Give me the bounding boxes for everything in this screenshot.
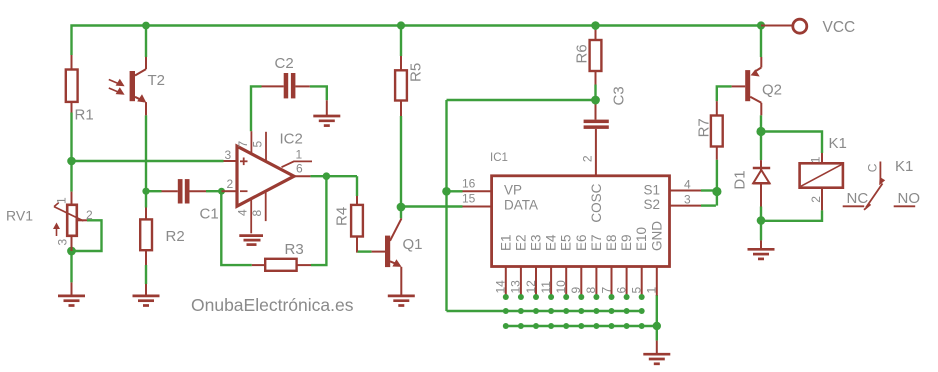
svg-text:1: 1 xyxy=(55,197,69,204)
op-amp IC2 xyxy=(222,131,313,233)
pin name C switch rotated xyxy=(866,163,880,172)
svg-text:VCC: VCC xyxy=(823,19,856,36)
wire C1 right to node C xyxy=(206,190,222,192)
IC1 pin 16 VP xyxy=(463,190,492,192)
label K1 relay xyxy=(829,135,847,152)
pin name VP xyxy=(504,182,522,197)
label C3 rotated xyxy=(611,86,628,105)
wire R6 bottom to C3 top xyxy=(447,100,596,105)
pin number 13 rotated xyxy=(509,280,523,294)
wire S2 pin3 to node F xyxy=(701,204,716,206)
svg-text:5: 5 xyxy=(630,287,644,294)
wire node G to relay K1 top xyxy=(761,132,822,154)
pin number 7 rotated xyxy=(599,287,613,294)
label VCC xyxy=(823,19,856,36)
ground below op-amp pin4 xyxy=(239,236,263,245)
pin name E3 rotated xyxy=(529,234,544,251)
wire RV1 pin3 to ground xyxy=(70,251,72,282)
node top rail R5 xyxy=(397,21,405,29)
transistor Q2 xyxy=(732,57,762,115)
wire C2 left to op-amp pin7 xyxy=(251,86,262,131)
wire RV1 wiper pin2 loop xyxy=(72,220,102,251)
svg-text:R5: R5 xyxy=(408,63,425,82)
IC1 pin 11 E4 xyxy=(550,267,552,295)
pin end dot E2 xyxy=(518,294,524,329)
svg-text:E5: E5 xyxy=(559,234,574,251)
svg-text:6: 6 xyxy=(614,287,628,294)
pin number 3 IC1 xyxy=(684,193,691,207)
svg-text:11: 11 xyxy=(539,281,553,294)
wire R4 bottom to Q1 base xyxy=(357,250,371,252)
ground below Q1 xyxy=(388,296,415,306)
label RV1 xyxy=(6,208,33,224)
node G junction Q2 D1 K1 xyxy=(756,127,765,136)
node RV1 pin3 junction xyxy=(67,247,76,256)
transistor Q1 xyxy=(372,218,402,295)
ground below RV1 xyxy=(58,282,85,305)
pin end dot E5 xyxy=(563,294,569,329)
pin end dot E1 xyxy=(503,294,509,329)
wire op-amp output to node D xyxy=(310,175,357,177)
pin name E8 rotated xyxy=(604,234,619,251)
svg-text:C: C xyxy=(866,163,880,172)
pin number 5 rotated xyxy=(630,287,644,294)
resistor R2 xyxy=(140,208,152,266)
wire VP net to IC1 pin16 xyxy=(447,190,463,192)
label R3 xyxy=(285,241,304,258)
svg-text:T2: T2 xyxy=(148,72,166,89)
wire R6 bottom drop xyxy=(594,85,596,101)
svg-text:7: 7 xyxy=(236,141,250,148)
svg-text:DATA: DATA xyxy=(504,198,538,213)
label Q1 xyxy=(403,236,423,253)
label R4 rotated xyxy=(334,207,351,226)
resistor R5 xyxy=(395,56,407,116)
wire VCC drop to T2 collector xyxy=(145,26,147,58)
svg-text:E8: E8 xyxy=(604,234,619,251)
svg-text:2: 2 xyxy=(809,196,823,203)
pin number 10 rotated xyxy=(554,280,568,294)
pin number 7 op-amp rotated xyxy=(236,141,250,148)
pin number 1 rotated xyxy=(645,287,659,294)
svg-text:4: 4 xyxy=(236,209,250,216)
relay contact switch K1 xyxy=(843,162,916,210)
pin number 8 op-amp rotated xyxy=(250,210,264,217)
IC1 pin 9 E6 xyxy=(580,267,582,295)
wire node E to IC1 DATA pin15 xyxy=(401,205,463,207)
svg-text:RV1: RV1 xyxy=(6,208,33,224)
pin number 2 op-amp xyxy=(227,177,234,191)
label IC1 xyxy=(490,152,508,164)
wire bus row 3 xyxy=(506,325,657,327)
wire R3 right to output node xyxy=(311,176,326,265)
ground below C2 xyxy=(313,100,340,125)
VCC supply circle xyxy=(793,19,807,33)
resistor R3 xyxy=(252,259,311,271)
svg-text:10: 10 xyxy=(554,280,568,294)
node top rail R6 xyxy=(591,21,600,30)
potentiometer RV1 xyxy=(53,192,87,251)
wire node D down to R4 xyxy=(356,176,358,196)
resistor R6 xyxy=(590,30,602,85)
svg-text:IC2: IC2 xyxy=(280,131,303,148)
pin number 5 op-amp rotated xyxy=(251,141,265,148)
svg-text:7: 7 xyxy=(599,287,613,294)
BUS DOTS xyxy=(503,294,661,330)
svg-text:S1: S1 xyxy=(644,182,661,197)
pin name S2 xyxy=(644,197,661,212)
svg-text:16: 16 xyxy=(462,177,476,191)
IC1 pin 3 S2 xyxy=(670,205,702,207)
wire S1 pin4 to node F xyxy=(701,189,717,191)
pin name S1 xyxy=(644,182,661,197)
svg-text:C1: C1 xyxy=(200,205,219,222)
svg-text:K1: K1 xyxy=(895,158,913,175)
pin end dot E4 xyxy=(548,294,554,329)
svg-text:14: 14 xyxy=(494,280,508,294)
svg-text:E3: E3 xyxy=(529,234,544,251)
pin number 2 RV1 xyxy=(86,208,93,222)
wire VCC drop to R6 xyxy=(594,26,596,31)
node top rail T2 xyxy=(142,22,150,30)
svg-text:1: 1 xyxy=(809,156,823,163)
svg-text:4: 4 xyxy=(684,178,691,192)
svg-text:COSC: COSC xyxy=(589,183,604,222)
wire R1 bottom to node A vertical xyxy=(70,113,72,192)
IC1 pin 5 E10 xyxy=(641,267,643,295)
pin end dot E9 xyxy=(624,294,630,329)
IC1 pin 6 E9 xyxy=(626,267,628,295)
svg-text:E9: E9 xyxy=(619,234,634,251)
wire R5 bottom to Q1 collector xyxy=(400,116,402,218)
pin name E10 rotated xyxy=(634,227,649,251)
wire T2 emitter down xyxy=(145,115,147,207)
pin number 1 op-amp xyxy=(296,147,303,161)
pin number 8 rotated xyxy=(584,287,598,294)
pin end dot E7 xyxy=(593,294,599,329)
svg-text:R7: R7 xyxy=(696,118,713,137)
svg-text:R6: R6 xyxy=(574,44,591,63)
label R1 xyxy=(75,107,94,124)
wire IC1 GND pin to ground xyxy=(656,295,658,341)
label Q2 xyxy=(762,82,782,99)
pin name E7 rotated xyxy=(589,234,604,251)
svg-text:VP: VP xyxy=(504,182,522,197)
svg-text:Q1: Q1 xyxy=(403,236,423,253)
svg-text:8: 8 xyxy=(584,287,598,294)
svg-text:E2: E2 xyxy=(513,234,528,251)
svg-text:8: 8 xyxy=(250,210,264,217)
node top rail Q2 xyxy=(757,21,765,29)
svg-text:E6: E6 xyxy=(574,234,589,251)
wire VP net vertical x446 xyxy=(445,100,447,311)
pin number 16 IC1 xyxy=(462,177,476,191)
label R5 rotated xyxy=(408,63,425,82)
capacitor C1 xyxy=(162,179,207,203)
svg-text:R4: R4 xyxy=(334,207,351,226)
wire VCC drop to R5 xyxy=(400,26,402,57)
pin number 3 op-amp xyxy=(225,148,232,162)
label C1 xyxy=(200,205,219,222)
ground below IC1 xyxy=(643,341,670,364)
svg-text:6: 6 xyxy=(296,161,303,175)
label C2 xyxy=(275,55,294,72)
wire D1 bottom to node H xyxy=(760,207,762,241)
IC1 pin 15 DATA xyxy=(463,206,492,208)
pin name E2 rotated xyxy=(513,234,528,251)
svg-text:OnubaElectrónica.es: OnubaElectrónica.es xyxy=(191,295,354,315)
pin end dot E10 xyxy=(639,294,645,329)
pin name E5 rotated xyxy=(559,234,574,251)
node A junction R1 RV1 opamp xyxy=(67,157,76,166)
pin number 6 rotated xyxy=(614,287,628,294)
capacitor C2 xyxy=(262,73,310,98)
svg-text:3: 3 xyxy=(684,193,691,207)
VCC supply pin wire xyxy=(761,25,792,27)
IC U1 body IC1 xyxy=(492,176,670,267)
svg-text:1: 1 xyxy=(296,147,303,161)
node VP junction xyxy=(442,187,451,196)
svg-text:R3: R3 xyxy=(285,241,304,258)
svg-text:2: 2 xyxy=(227,177,234,191)
pin number 11 rotated xyxy=(539,281,553,294)
label R7 rotated xyxy=(696,118,713,137)
pin end dot E8 xyxy=(609,294,615,329)
resistor R4 xyxy=(351,196,363,252)
label R6 rotated xyxy=(574,44,591,63)
node C junction C1 opamp R3 xyxy=(218,188,225,195)
pin number 2 IC1 rotated xyxy=(581,155,595,162)
pin number 3 RV1 rotated xyxy=(56,239,70,246)
label K1 switch xyxy=(895,158,913,175)
svg-text:D1: D1 xyxy=(732,170,749,189)
IC1 pin 7 E8 xyxy=(611,267,613,295)
label D1 rotated xyxy=(732,170,749,189)
pin name DATA xyxy=(504,198,538,213)
phototransistor T2 xyxy=(109,57,147,115)
svg-text:3: 3 xyxy=(225,148,232,162)
pin name COSC rotated xyxy=(589,183,604,222)
pin number 4 IC1 xyxy=(684,178,691,192)
wire R2 bottom to ground xyxy=(145,265,147,284)
node C3 R6 junction xyxy=(591,96,600,105)
label R2 xyxy=(166,228,185,245)
watermark OnubaElectronica.es xyxy=(191,295,354,315)
wire relay K1 bottom to node H xyxy=(761,210,822,221)
pin number 1 relay rotated xyxy=(809,156,823,163)
wire VCC top rail xyxy=(72,26,762,58)
wire bus row 2 xyxy=(447,310,642,312)
IC1 inner pin names xyxy=(498,182,664,251)
resistor R1 xyxy=(66,55,78,113)
pin end dot E6 xyxy=(578,294,584,329)
junction GND bus xyxy=(653,322,661,330)
wire node A to op-amp +input xyxy=(72,160,224,162)
svg-text:2: 2 xyxy=(581,155,595,162)
svg-text:5: 5 xyxy=(251,141,265,148)
svg-text:NC: NC xyxy=(847,190,869,207)
svg-text:R1: R1 xyxy=(75,107,94,124)
IC1 pin 13 E2 xyxy=(520,267,522,295)
node D junction output R3 R4 xyxy=(323,172,331,180)
IC1 pin 4 S1 xyxy=(670,190,702,192)
svg-text:E4: E4 xyxy=(544,234,559,251)
node F junction S1 S2 R7 xyxy=(712,187,721,196)
node H junction D1 K1 ground xyxy=(757,216,766,225)
label NC xyxy=(847,190,869,207)
pin number 14 rotated xyxy=(494,280,508,294)
svg-text:R2: R2 xyxy=(166,228,185,245)
wire node B to C1 left xyxy=(146,190,162,192)
capacitor C3 xyxy=(584,105,609,176)
svg-text:GND: GND xyxy=(649,221,664,251)
svg-text:3: 3 xyxy=(56,239,70,246)
pin number 6 op-amp xyxy=(296,161,303,175)
pin name E1 rotated xyxy=(498,234,513,251)
pin number 1 RV1 rotated xyxy=(55,197,69,204)
pin number 4 op-amp rotated xyxy=(236,209,250,216)
pin end dot E3 xyxy=(533,294,539,329)
pin number 12 rotated xyxy=(524,280,538,294)
svg-text:S2: S2 xyxy=(644,197,661,212)
ground below R2 xyxy=(133,284,160,306)
label NO xyxy=(898,190,921,207)
svg-text:13: 13 xyxy=(509,280,523,294)
svg-text:15: 15 xyxy=(462,192,476,206)
svg-text:1: 1 xyxy=(645,287,659,294)
IC1 pin 8 E7 xyxy=(595,267,597,295)
pin number 15 IC1 xyxy=(462,192,476,206)
svg-text:2: 2 xyxy=(86,208,93,222)
IC1 pin 1 GND xyxy=(656,267,658,296)
resistor R7 xyxy=(711,101,723,160)
diode D1 xyxy=(753,160,770,206)
wire Q2 collector down to node G xyxy=(760,115,762,160)
svg-text:K1: K1 xyxy=(829,135,847,152)
node B junction T2 C1 R2 xyxy=(142,188,149,195)
relay coil K1 xyxy=(800,153,843,210)
IC1 pin 12 E3 xyxy=(535,267,537,295)
label T2 xyxy=(148,72,166,89)
IC1 pin 14 E1 xyxy=(505,267,507,295)
pin name E6 rotated xyxy=(574,234,589,251)
svg-text:E7: E7 xyxy=(589,234,604,251)
pin number 9 rotated xyxy=(569,287,583,294)
pin name E4 rotated xyxy=(544,234,559,251)
svg-text:E1: E1 xyxy=(498,234,513,251)
node E junction R5 Q1 DATA xyxy=(397,203,406,212)
svg-text:12: 12 xyxy=(524,280,538,294)
svg-text:NO: NO xyxy=(898,190,921,207)
pin name GND rotated xyxy=(649,221,664,251)
svg-text:C3: C3 xyxy=(611,86,628,105)
IC1 pin 10 E5 xyxy=(565,267,567,295)
wire R7 top to Q2 base xyxy=(717,86,732,101)
svg-text:E10: E10 xyxy=(634,227,649,251)
pin name E9 rotated xyxy=(619,234,634,251)
wire node F up to R7 xyxy=(716,160,718,206)
svg-text:IC1: IC1 xyxy=(490,152,508,164)
svg-text:C2: C2 xyxy=(275,55,294,72)
wire node C down to R3 xyxy=(221,191,252,265)
pin number 2 relay rotated xyxy=(809,196,823,203)
ground below D1 xyxy=(748,240,775,259)
label IC2 xyxy=(280,131,303,148)
wire C2 right to ground xyxy=(310,86,327,100)
svg-text:Q2: Q2 xyxy=(762,82,782,99)
svg-text:9: 9 xyxy=(569,287,583,294)
